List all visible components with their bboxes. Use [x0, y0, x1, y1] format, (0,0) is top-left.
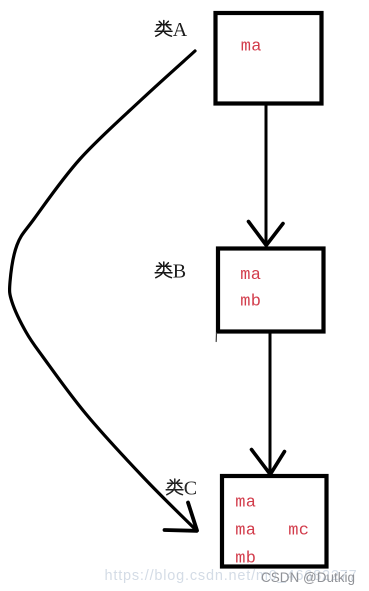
- svg-text:ma: ma: [240, 266, 261, 285]
- svg-text:CSDN @Dutkig: CSDN @Dutkig: [261, 570, 355, 585]
- label 类C: [166, 479, 183, 495]
- svg-text:B: B: [173, 261, 186, 283]
- arrow B to C head: [252, 450, 285, 475]
- label 类A: [155, 21, 172, 37]
- svg-text:mb: mb: [240, 293, 261, 312]
- svg-text:ma: ma: [241, 38, 262, 57]
- box B pen overshoot tail: [215, 333, 217, 342]
- svg-text:A: A: [173, 19, 188, 41]
- arrow A to B shaft: [265, 104, 268, 243]
- box B (class B): [218, 249, 324, 332]
- svg-text:ma: ma: [235, 522, 256, 541]
- svg-text:ma: ma: [235, 494, 256, 513]
- svg-text:C: C: [184, 478, 197, 500]
- arrow B to C shaft: [269, 332, 272, 472]
- curved arrow A to C: curve: [10, 51, 197, 531]
- label 类B: [155, 262, 172, 278]
- curved arrow head: [165, 503, 198, 531]
- box A (class A): [216, 13, 322, 104]
- box C (class C): [222, 476, 327, 567]
- arrow A to B head: [249, 222, 284, 246]
- svg-text:mc: mc: [288, 522, 309, 541]
- svg-text:mb: mb: [235, 550, 256, 569]
